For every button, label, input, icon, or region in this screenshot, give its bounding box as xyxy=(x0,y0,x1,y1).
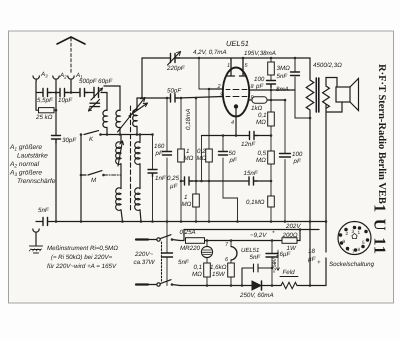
svg-text:0,18mA: 0,18mA xyxy=(185,109,192,130)
svg-text:4: 4 xyxy=(231,120,234,126)
tube electrode pin1 xyxy=(228,58,235,76)
coil L1 primary xyxy=(103,93,107,135)
svg-text:1nF: 1nF xyxy=(155,175,167,182)
tube electrode pin5 xyxy=(240,58,247,76)
tube grid dashes xyxy=(226,90,247,97)
svg-text:3: 3 xyxy=(352,229,355,234)
svg-text:0,1: 0,1 xyxy=(258,112,267,119)
rail x142 xyxy=(141,58,143,98)
svg-text:+: + xyxy=(317,259,321,266)
rail 1nF x152.5 xyxy=(152,135,154,222)
svg-text:pF: pF xyxy=(293,158,302,165)
svg-text:Feld: Feld xyxy=(283,269,296,276)
socket pin numbers xyxy=(343,229,366,254)
resistor 200Ohm xyxy=(282,230,300,244)
svg-text:50: 50 xyxy=(229,150,236,157)
svg-text:50pF: 50pF xyxy=(167,88,182,95)
margin text RFT xyxy=(371,64,390,255)
supply bus y229.5 xyxy=(184,229,319,231)
svg-text:250V, 60mA: 250V, 60mA xyxy=(239,292,274,299)
coil L2 xyxy=(133,98,137,135)
capacitor 50pF grid xyxy=(171,94,179,102)
svg-text:5nF: 5nF xyxy=(38,207,50,214)
svg-text:4: 4 xyxy=(347,247,350,252)
rail 100pF x285 xyxy=(284,100,286,222)
capacitor 10pF xyxy=(60,89,68,97)
wire rail x56 xyxy=(55,93,57,222)
svg-text:16µF: 16µF xyxy=(276,251,291,258)
wire pin2 row xyxy=(209,88,224,90)
trimmer capacitor 220pF xyxy=(168,52,181,66)
switch upper xyxy=(157,235,184,242)
arrow through band filter xyxy=(118,98,146,133)
rail 16uF x272 xyxy=(271,241,273,286)
rectifier diode 250V 60mA xyxy=(252,281,262,290)
svg-text:pF: pF xyxy=(255,83,264,90)
capacitor 0,25uF xyxy=(185,177,193,185)
rectifier MR220 xyxy=(201,246,212,257)
svg-text:MR220: MR220 xyxy=(180,245,201,252)
svg-text:−9,2V: −9,2V xyxy=(250,232,267,239)
svg-text:220pF: 220pF xyxy=(166,65,186,72)
capacitor 5nF anode xyxy=(291,72,300,76)
svg-text:µF: µF xyxy=(170,183,179,190)
svg-text:UEL51: UEL51 xyxy=(241,247,259,254)
svg-text:MΩ: MΩ xyxy=(192,271,202,278)
arrow through L2 xyxy=(129,103,148,116)
svg-text:15nF: 15nF xyxy=(244,170,259,177)
resistor 0,2MOhm xyxy=(206,149,213,162)
wire cathode row y135.5 xyxy=(202,135,272,137)
tube UEL51 envelope xyxy=(223,68,249,117)
svg-text:5,5pF: 5,5pF xyxy=(37,97,54,104)
svg-text:MΩ: MΩ xyxy=(182,201,192,208)
svg-text:UEL51: UEL51 xyxy=(226,39,249,48)
svg-text:1,6kΩ: 1,6kΩ xyxy=(210,264,227,271)
svg-text:10pF: 10pF xyxy=(58,97,73,104)
svg-text:5nF: 5nF xyxy=(250,254,262,261)
fuse 0,25A xyxy=(186,238,205,244)
svg-text:9: 9 xyxy=(343,239,346,244)
svg-text:3MΩ: 3MΩ xyxy=(277,65,291,72)
oscillator coil L3 lower xyxy=(116,188,123,222)
svg-text:Trennschärfe: Trennschärfe xyxy=(17,178,56,185)
rail 5nF anode x295 xyxy=(295,58,310,118)
svg-text:1: 1 xyxy=(227,63,230,69)
svg-text:1: 1 xyxy=(358,230,361,235)
wire -9,2V row xyxy=(205,240,283,242)
earth terminal xyxy=(33,229,39,245)
svg-text:160: 160 xyxy=(154,143,165,150)
rail 50pF second x223 xyxy=(223,136,238,222)
switch lower xyxy=(157,280,180,286)
bottom wire y285.5 xyxy=(180,285,326,287)
tube cathode xyxy=(234,105,237,136)
svg-text:0,1MΩ: 0,1MΩ xyxy=(246,199,265,206)
field coil Feld xyxy=(280,277,298,289)
terminal A3 xyxy=(33,76,39,81)
svg-text:ca.37W: ca.37W xyxy=(134,259,156,266)
anode wire pin8 xyxy=(249,89,295,91)
svg-text:12nF: 12nF xyxy=(241,141,256,148)
svg-text:Meßinstrument Ri=0,5MΩ: Meßinstrument Ri=0,5MΩ xyxy=(47,245,118,252)
capacitor 5nF earth xyxy=(43,218,48,226)
resistor 0,1MOhm screen xyxy=(268,112,275,126)
trimmer capacitor 60pF xyxy=(91,88,103,101)
svg-text:5nF: 5nF xyxy=(178,259,190,266)
capacitor 5,5pF xyxy=(43,89,51,97)
coil L1 secondary xyxy=(116,110,120,134)
svg-text:9: 9 xyxy=(251,95,254,101)
capacitor 5nF ripple xyxy=(242,264,272,286)
svg-text:30pF: 30pF xyxy=(62,137,77,144)
capacitor 50pF second xyxy=(219,152,228,156)
loudspeaker xyxy=(336,79,359,111)
padder capacitor xyxy=(90,103,100,106)
svg-text:Lautstärke: Lautstärke xyxy=(17,153,48,160)
border frame xyxy=(9,31,394,303)
resistor 0,1MOhm lamp xyxy=(204,263,211,277)
svg-text:0,1: 0,1 xyxy=(194,264,203,271)
svg-text:100: 100 xyxy=(254,76,265,83)
resistor 3MOhm xyxy=(268,62,275,75)
lamp rail x207 xyxy=(206,241,208,286)
svg-text:8: 8 xyxy=(358,247,361,252)
svg-text:5: 5 xyxy=(362,240,365,245)
pin9 wire with resistor 1kOhm xyxy=(249,97,285,103)
svg-text:0,2: 0,2 xyxy=(197,148,206,155)
resistor 0,1MOhm lower xyxy=(268,196,275,207)
svg-text:1 U 11: 1 U 11 xyxy=(371,204,390,255)
svg-text:R·F·T Stern-Radio Berlin VEB: R·F·T Stern-Radio Berlin VEB xyxy=(376,64,387,204)
oscillator coil L4 upper xyxy=(135,135,140,189)
svg-text:2: 2 xyxy=(217,84,221,90)
rail 5nF chassis x167 xyxy=(166,222,168,286)
svg-text:8mA: 8mA xyxy=(276,86,289,93)
screen rail x199 xyxy=(199,58,209,89)
svg-text:µF: µF xyxy=(308,256,317,263)
rail 0,2M x209 xyxy=(208,89,210,222)
tube heater filament xyxy=(231,247,237,261)
transformer core xyxy=(316,78,319,112)
cathode rail x201.5 xyxy=(201,136,203,182)
terminal A1 xyxy=(68,76,74,81)
chassis bus y221.5 xyxy=(36,221,326,223)
svg-text:4,2V, 0,7mA: 4,2V, 0,7mA xyxy=(193,49,227,56)
capacitor 16uF xyxy=(266,254,278,258)
grid rail x196 xyxy=(195,98,197,222)
switch linkage dashed xyxy=(161,242,163,281)
wire grid row y98 xyxy=(137,97,223,99)
svg-text:500pF 60pF: 500pF 60pF xyxy=(79,78,113,85)
rail 3M x271 xyxy=(270,58,272,222)
svg-text:MΩ: MΩ xyxy=(256,119,266,126)
tube socket Sockelschaltung xyxy=(338,222,371,255)
svg-text:0,25: 0,25 xyxy=(167,175,180,182)
svg-text:15W: 15W xyxy=(212,271,226,278)
wire top link to L1 secondary xyxy=(104,86,120,111)
arrow through L3 xyxy=(118,141,124,166)
antenna xyxy=(57,37,85,73)
wire antenna input row xyxy=(36,81,107,110)
svg-text:Sockelschaltung: Sockelschaltung xyxy=(329,261,375,268)
capacitor 100pF anode xyxy=(267,81,276,88)
wire rail x81 switches xyxy=(80,135,82,222)
capacitor 100pF second xyxy=(280,154,291,158)
capacitor 1nF xyxy=(148,170,157,177)
speaker connection wires xyxy=(326,78,342,113)
capacitor 500pF xyxy=(80,89,88,97)
capacitor 5nF chassis xyxy=(162,253,173,257)
ground symbol xyxy=(29,246,42,253)
output transformer primary xyxy=(306,58,314,286)
svg-text:2: 2 xyxy=(346,231,349,236)
svg-text:(≈ Ri 50kΩ) bei 220V≈: (≈ Ri 50kΩ) bei 220V≈ xyxy=(51,254,113,261)
resistor 0,5MOhm xyxy=(268,151,275,164)
svg-text:0,5: 0,5 xyxy=(258,150,267,157)
switch K xyxy=(84,131,107,135)
svg-text:MΩ: MΩ xyxy=(256,157,266,164)
svg-text:18: 18 xyxy=(308,248,315,255)
svg-text:1kΩ: 1kΩ xyxy=(251,105,263,112)
resistor 1MOhm xyxy=(178,149,185,162)
svg-text:≈250V: ≈250V xyxy=(272,257,278,273)
mains stub lower xyxy=(136,283,156,285)
oscillator coil L3 upper xyxy=(116,135,121,189)
svg-text:0,25A: 0,25A xyxy=(180,229,196,236)
switch M linkage xyxy=(81,171,121,175)
core dashed line xyxy=(130,106,132,212)
fuse riser xyxy=(183,230,185,241)
voltage arrow 250V xyxy=(277,250,280,271)
svg-text:1: 1 xyxy=(184,194,187,201)
svg-text:7: 7 xyxy=(352,249,355,254)
svg-text:MΩ: MΩ xyxy=(184,155,194,162)
oscillator coil L4 lower xyxy=(135,188,141,222)
wire tuned circuit row xyxy=(107,134,153,136)
svg-text:M: M xyxy=(91,177,97,184)
capacitor 160pF xyxy=(163,152,172,156)
svg-text:1: 1 xyxy=(186,148,189,155)
svg-text:MΩ: MΩ xyxy=(197,155,207,162)
top supply wire xyxy=(142,57,310,59)
svg-text:5nF: 5nF xyxy=(277,73,289,80)
svg-text:pF: pF xyxy=(229,157,238,164)
wire bias row y181 xyxy=(181,180,271,182)
capacitor 12nF xyxy=(250,132,258,140)
heater rail x231 xyxy=(230,241,232,286)
resistor 25kOhm xyxy=(36,108,56,113)
rail 1M x181 xyxy=(180,98,182,222)
capacitor 15nF xyxy=(249,177,257,185)
rail 160pF x167 xyxy=(166,98,168,222)
svg-text:200Ω: 200Ω xyxy=(282,232,298,239)
resistor 1MOhm second xyxy=(193,194,200,207)
svg-text:4500/2,3Ω: 4500/2,3Ω xyxy=(313,62,342,69)
output transformer secondary xyxy=(323,78,330,286)
svg-text:pF: pF xyxy=(155,150,164,157)
svg-text:100: 100 xyxy=(292,151,303,158)
mains stub upper xyxy=(136,238,156,240)
svg-text:25 kΩ: 25 kΩ xyxy=(35,114,53,121)
capacitor 30pF xyxy=(52,136,61,144)
terminal A2 xyxy=(53,76,59,81)
resistor 1,6kOhm 15W xyxy=(228,263,235,277)
svg-text:202V: 202V xyxy=(285,223,301,230)
svg-text:für 220V~wird +A = 165V: für 220V~wird +A = 165V xyxy=(47,263,117,270)
trimmer arrow lower xyxy=(89,100,100,112)
svg-text:195V,38mA: 195V,38mA xyxy=(244,50,276,57)
svg-text:220V~: 220V~ xyxy=(134,251,153,258)
